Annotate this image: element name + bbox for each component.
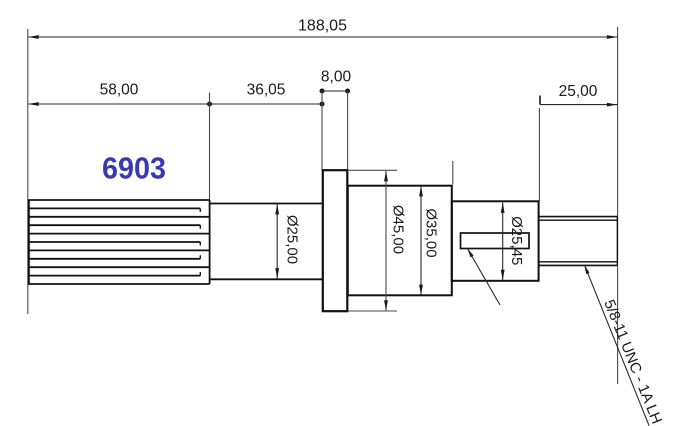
thread leader arrow: [584, 265, 589, 275]
keyway slot outline: [461, 233, 530, 249]
spline tooth line 1 (top edge): [28, 199, 210, 201]
spline tooth hook 8: [199, 255, 201, 258]
threaded end major diameter top: [539, 216, 617, 218]
dimension 25,00 left tick: [539, 96, 541, 105]
extension line thread start: [538, 108, 540, 201]
dimension diameter 25,45 line: [502, 203, 504, 281]
spline tooth hook 10: [199, 272, 201, 276]
dimension 8,00 left dot: [320, 89, 325, 94]
dimension 8,00 line: [322, 90, 348, 92]
dimension diameter 45,00 line: [385, 171, 387, 311]
spline tooth line 4: [28, 224, 200, 226]
spline tooth line 5: [28, 233, 210, 235]
shaft section diameter 25,00 top edge: [210, 203, 323, 205]
keyway leader arrow: [467, 248, 473, 257]
dimension diameter 35,00 bottom arrow: [419, 285, 423, 296]
spline tooth line 2: [28, 207, 200, 209]
dimension 8,00 right dot: [345, 89, 350, 94]
dimension diameter 25,45 bottom arrow: [501, 270, 505, 281]
spline tooth hook 4: [199, 225, 201, 229]
node dot at 36,05 right end: [320, 102, 325, 107]
threaded end major diameter bottom: [539, 264, 617, 266]
spline tooth line 7: [28, 249, 210, 251]
spline tooth hook 2: [199, 208, 201, 212]
threaded end minor diameter bottom: [539, 261, 617, 263]
spline step edge: [209, 200, 211, 284]
spline tooth line 11 (bottom edge): [28, 283, 210, 285]
dimension 25,00 line: [540, 104, 617, 106]
svg-text:8,00: 8,00: [321, 69, 352, 86]
spline tooth line 8: [28, 258, 200, 260]
shaft section diameter 35,00 outline: [348, 186, 452, 296]
threaded end face: [616, 217, 618, 266]
spline tooth hook 6: [199, 242, 201, 246]
spline tooth line 10: [28, 275, 200, 277]
dimension 188,05 left arrow: [28, 35, 39, 39]
dimension 188,05 line: [28, 36, 617, 38]
thread leader line: [584, 265, 649, 426]
dimension diameter 25,00 line: [276, 204, 278, 279]
spline tooth line 6: [28, 241, 200, 243]
flange bottom edge extension: [348, 310, 398, 312]
dimension diameter 25,00 top arrow: [275, 204, 279, 215]
svg-text:Ø45,00: Ø45,00: [390, 205, 407, 254]
extension line spline step: [209, 93, 211, 201]
svg-text:188,05: 188,05: [298, 18, 347, 35]
spline tooth line 9: [28, 266, 210, 268]
node dot at 58/36,05 junction: [207, 102, 212, 107]
dimension diameter 45,00 bottom arrow: [384, 300, 388, 311]
dimension 36,05 line: [210, 103, 323, 105]
shaft section diameter 25,00 bottom edge: [210, 278, 323, 280]
extension stub above keyway section: [452, 161, 454, 185]
flange diameter 45,00 outline: [323, 170, 348, 311]
svg-text:Ø35,00: Ø35,00: [423, 208, 440, 257]
svg-text:5/8-11 UNC - 1A LH: 5/8-11 UNC - 1A LH: [600, 297, 665, 426]
dimension 25,00 right arrow: [607, 103, 618, 107]
dimension diameter 35,00 top arrow: [419, 186, 423, 197]
svg-text:25,00: 25,00: [559, 83, 598, 100]
dimension diameter 25,45 top arrow: [501, 202, 505, 213]
dimension diameter 35,00 line: [420, 186, 422, 295]
extension line flange left: [321, 91, 323, 170]
shaft section diameter 25,45 outline: [452, 201, 539, 280]
flange top edge extension: [348, 169, 398, 171]
extension line right end face: [617, 27, 619, 384]
threaded end minor diameter top: [539, 219, 617, 221]
svg-text:6903: 6903: [102, 151, 166, 186]
spline section left edge: [28, 200, 30, 284]
svg-text:Ø25,00: Ø25,00: [284, 215, 301, 264]
keyway leader line: [467, 248, 500, 305]
dimension 188,05 right arrow: [607, 35, 618, 39]
dimension 58,00 line: [28, 103, 209, 105]
extension line left end: [27, 29, 29, 314]
dimension 58,00 left arrow: [28, 102, 39, 106]
svg-text:58,00: 58,00: [100, 82, 139, 99]
extension line flange right: [347, 91, 349, 170]
dimension diameter 25,00 bottom arrow: [275, 268, 279, 279]
spline tooth line 3: [28, 216, 210, 218]
svg-text:36,05: 36,05: [247, 82, 286, 99]
dimension diameter 45,00 top arrow: [384, 171, 388, 182]
svg-text:Ø25,45: Ø25,45: [508, 216, 525, 265]
